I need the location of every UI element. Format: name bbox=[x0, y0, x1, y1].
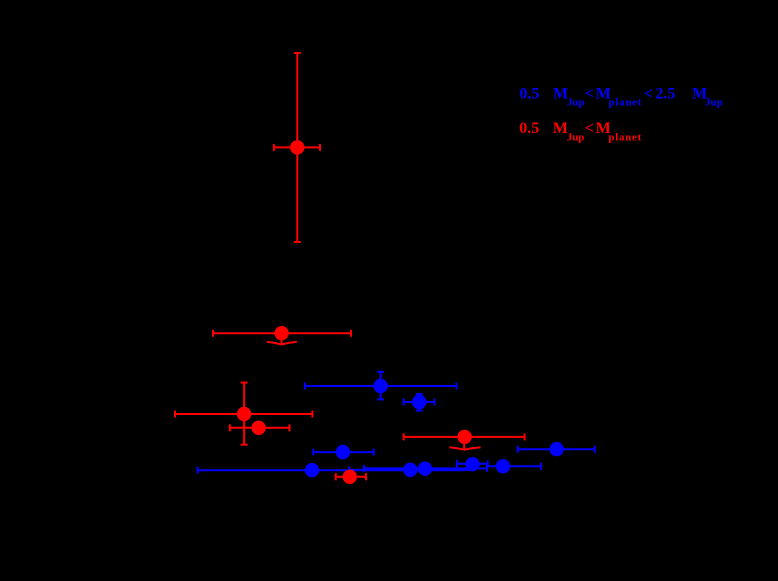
R1 marker bbox=[290, 140, 304, 154]
blue point B8 error bar bbox=[349, 466, 470, 473]
R3 horizontal error bar bbox=[175, 413, 312, 415]
R2 marker bbox=[274, 326, 288, 340]
B2 marker bbox=[412, 395, 426, 409]
red point R6 with error bar bbox=[336, 473, 366, 480]
R3 marker bbox=[237, 407, 251, 421]
blue point B9 long error bar bbox=[198, 467, 465, 474]
blue point B1 with error bars bbox=[305, 372, 457, 400]
R6 marker bbox=[343, 470, 357, 484]
red point R4 with error bar bbox=[230, 424, 290, 431]
R4 horizontal error bar bbox=[230, 427, 290, 429]
B7 marker bbox=[418, 462, 432, 476]
red point R3 with error bars bbox=[175, 383, 312, 445]
R2 horizontal error bar bbox=[213, 332, 351, 334]
B9 marker bbox=[305, 463, 319, 477]
R4 marker bbox=[251, 421, 265, 435]
B6 marker bbox=[496, 459, 510, 473]
blue point B4 error bar bbox=[518, 446, 595, 453]
blue point B6 error bar bbox=[488, 463, 541, 470]
B8 marker bbox=[403, 463, 417, 477]
B1 vertical error bar bbox=[380, 372, 382, 400]
blue point B7 error bar bbox=[364, 465, 487, 472]
B2 horizontal error bar bbox=[404, 401, 435, 403]
red point R2 (upper limit) with error bar bbox=[213, 330, 351, 345]
R1 horizontal error bar bbox=[274, 146, 320, 148]
red point R1 with error bars bbox=[274, 53, 320, 242]
B4 marker bbox=[549, 442, 563, 456]
B3 marker bbox=[336, 445, 350, 459]
blue point B3 error bar bbox=[313, 449, 374, 456]
R5 horizontal error bar bbox=[404, 436, 525, 438]
R5 marker bbox=[457, 430, 471, 444]
R6 horizontal error bar bbox=[336, 476, 366, 478]
R3 vertical error bar bbox=[243, 383, 245, 445]
R1 vertical error bar bbox=[296, 53, 298, 242]
blue point B2 with error bars bbox=[404, 394, 435, 411]
blue point B5 error bar bbox=[457, 460, 488, 467]
B1 horizontal error bar bbox=[305, 385, 457, 387]
B1 marker bbox=[373, 379, 387, 393]
R2 downward limit arrow bbox=[281, 336, 283, 345]
R5 downward limit arrow bbox=[463, 440, 465, 450]
B2 vertical error bar bbox=[418, 394, 420, 411]
red point R5 (upper limit) with error bar bbox=[404, 433, 525, 449]
B5 marker bbox=[465, 457, 479, 471]
